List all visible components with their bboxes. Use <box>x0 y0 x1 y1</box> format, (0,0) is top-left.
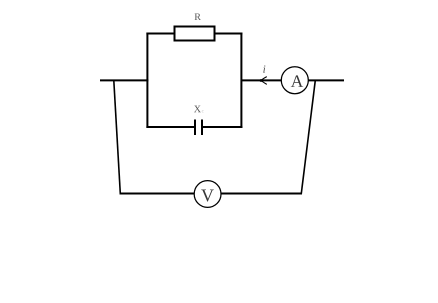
current arrow head <box>261 77 267 85</box>
ammeter U1 circle <box>281 67 308 94</box>
wire: loop bottom-right horizontal <box>202 126 242 128</box>
arrow tip dot <box>260 79 263 82</box>
wire: left horizontal lead <box>100 79 148 81</box>
wire: right horizontal to ammeter <box>241 79 281 81</box>
wire: loop left vertical <box>146 33 148 129</box>
voltmeter U2 circle <box>194 181 221 208</box>
label Xc <box>194 106 201 113</box>
wire: loop top-left horizontal <box>146 33 175 35</box>
voltmeter letter V <box>201 190 214 202</box>
wire: bottom-right horizontal <box>221 193 302 195</box>
label R <box>195 13 201 20</box>
label i <box>263 65 265 72</box>
capacitor C1 right plate <box>201 120 203 136</box>
wire: left diagonal down to voltmeter <box>114 80 121 193</box>
ammeter letter A <box>291 75 303 87</box>
wire: loop bottom-left horizontal <box>146 126 195 128</box>
wire: loop right vertical <box>240 33 242 129</box>
wire: loop top-right horizontal <box>215 33 243 35</box>
wire: right diagonal down to voltmeter <box>301 80 315 193</box>
capacitor C1 left plate <box>194 120 196 136</box>
wire: bottom-left horizontal <box>120 193 195 195</box>
wire: right horizontal after ammeter <box>308 79 344 81</box>
resistor R1 body <box>175 27 215 41</box>
